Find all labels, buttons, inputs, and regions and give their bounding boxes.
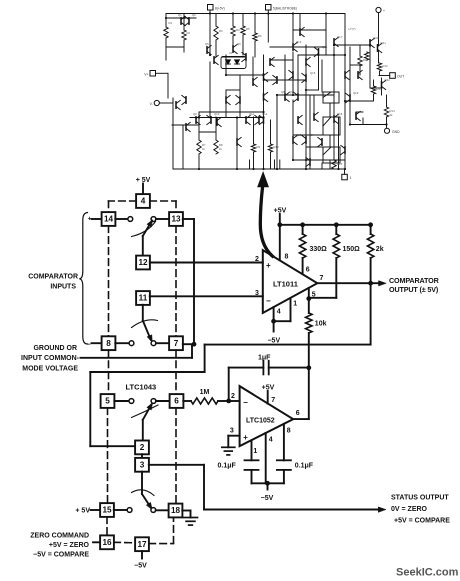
svg-text:3: 3	[255, 290, 259, 297]
svg-text:C1: C1	[229, 51, 233, 55]
wire feedback node to LTC1052 output	[308, 368, 310, 419]
resistor 2k	[370, 225, 372, 234]
svg-text:Q9: Q9	[193, 112, 197, 116]
svg-text:8(+5V): 8(+5V)	[215, 6, 225, 10]
wire contact to pin 18	[156, 509, 169, 511]
svg-text:7: 7	[174, 339, 179, 348]
die output stage boxed transistors	[323, 92, 339, 103]
wire pin12 to LT1011 +input	[150, 262, 263, 264]
pins 4 and 1 wires	[273, 307, 275, 321]
svg-text:INPUTS: INPUTS	[50, 284, 76, 291]
svg-text:13: 13	[171, 215, 181, 224]
dashed wire pin17 to pin18	[149, 543, 174, 545]
switch S2 arm and arc	[142, 305, 144, 321]
svg-text:Q12: Q12	[262, 112, 268, 116]
svg-text:R6: R6	[258, 34, 262, 38]
svg-text:Q19: Q19	[353, 91, 359, 95]
svg-text:Q15: Q15	[310, 71, 316, 75]
wire pin8 to switch contact	[115, 342, 129, 344]
svg-text:Q2: Q2	[192, 13, 196, 17]
switch contact circle near 8	[129, 341, 134, 346]
svg-text:−5V: −5V	[267, 338, 280, 345]
svg-text:OUTPUT (± 5V): OUTPUT (± 5V)	[389, 285, 439, 294]
svg-text:SeekIC.com: SeekIC.com	[396, 566, 459, 578]
wire contact to pin 6	[156, 400, 170, 402]
switch contact circle near 14	[128, 217, 133, 222]
wire pin13 right then down to pin7 node	[183, 218, 194, 220]
pin 7 wire	[267, 391, 269, 404]
LTC1043 pin 12 box	[136, 256, 150, 270]
die terminal V- input	[154, 100, 159, 105]
svg-text:+: +	[243, 433, 248, 442]
svg-text:15: 15	[102, 506, 112, 515]
svg-text:2: 2	[140, 443, 145, 452]
svg-text:+: +	[266, 261, 271, 270]
die terminal 1 bottom	[342, 174, 348, 180]
wire pin18 to ground	[182, 510, 190, 512]
op-amp LT1011 comparator	[263, 250, 318, 313]
svg-text:6: 6	[174, 397, 179, 406]
svg-text:−5V: −5V	[261, 495, 274, 502]
dashed column 7 to 6	[175, 350, 177, 394]
capacitor 1uF feedback	[228, 368, 230, 401]
svg-text:2: 2	[255, 256, 259, 263]
svg-text:COMPARATOR: COMPARATOR	[28, 274, 78, 281]
die terminal OUTPUT	[390, 73, 396, 79]
svg-text:+5V = COMPARE: +5V = COMPARE	[394, 517, 450, 524]
svg-text:−5V: −5V	[134, 563, 147, 570]
pin 4 wire	[265, 433, 267, 483]
LTC1043 pin 4 box	[136, 194, 150, 208]
svg-text:1: 1	[350, 176, 352, 180]
svg-text:R13: R13	[377, 87, 383, 91]
svg-text:INPUT COMMON-: INPUT COMMON-	[21, 355, 80, 362]
die top supply rail	[166, 13, 345, 15]
svg-text:4: 4	[269, 437, 273, 444]
wire contact to pin 7	[156, 342, 169, 344]
junction dot at pin7 node	[192, 342, 197, 347]
svg-text:2k: 2k	[390, 113, 394, 117]
svg-text:3: 3	[230, 428, 234, 435]
svg-text:18: 18	[171, 506, 181, 515]
die terminal 8 +5V	[208, 5, 214, 11]
die wiring verticals	[165, 14, 167, 28]
svg-text:0.1μF: 0.1μF	[218, 463, 237, 470]
die junction dots	[209, 12, 211, 14]
dashed column 6 to 18	[175, 408, 177, 504]
wire pin7 to junction	[183, 343, 194, 345]
svg-text:LTC1052: LTC1052	[246, 417, 275, 424]
-5V label LT1011	[273, 321, 275, 331]
svg-text:STATUS OUTPUT: STATUS OUTPUT	[391, 495, 449, 502]
svg-text:LT(?): LT(?)	[349, 27, 356, 31]
wire brace to pin 14	[92, 218, 102, 220]
resistor 330ohm	[302, 225, 304, 234]
LTC1043 pin 3 box	[135, 458, 149, 472]
pin 8 wire	[283, 424, 285, 460]
svg-text:150Ω: 150Ω	[343, 246, 361, 253]
svg-text:5: 5	[105, 397, 110, 406]
svg-text:1: 1	[293, 301, 297, 308]
wire brace to pin 8	[92, 342, 102, 344]
wire contact to pin 13	[156, 218, 169, 220]
dashed column 13 to 7	[175, 226, 177, 337]
svg-text:V-: V-	[150, 102, 153, 106]
svg-text:LT1011: LT1011	[273, 279, 298, 288]
svg-text:6: 6	[306, 267, 310, 274]
svg-text:Q10: Q10	[214, 112, 220, 116]
wire +5V to pin 4	[142, 184, 144, 195]
die wiring horizontals	[166, 17, 196, 19]
comparator output wire	[317, 282, 382, 284]
svg-text:0V = ZERO: 0V = ZERO	[391, 506, 428, 513]
svg-text:1M: 1M	[200, 389, 210, 396]
resistor 10k	[308, 299, 310, 313]
die resistors	[164, 27, 168, 38]
svg-text:Q16: Q16	[322, 45, 328, 49]
svg-text:7: 7	[320, 275, 324, 282]
svg-text:Q20: Q20	[373, 36, 379, 40]
switch S3 arm and arc	[143, 405, 152, 420]
svg-text:Q13: Q13	[296, 40, 302, 44]
svg-text:−: −	[86, 342, 90, 349]
switch contact circle near 7	[151, 341, 156, 346]
LTC1043 pin 16 box	[100, 535, 114, 549]
wire +5V to rail	[279, 214, 281, 225]
svg-text:Q5: Q5	[205, 42, 209, 46]
resistor 150ohm	[335, 225, 337, 234]
LTC1043 pin 18 box	[169, 504, 183, 518]
wire pin11 to LT1011 -input	[150, 295, 263, 297]
svg-text:10k: 10k	[315, 321, 327, 328]
svg-text:Q14: Q14	[289, 90, 295, 94]
svg-text:4: 4	[141, 197, 146, 206]
svg-text:GND: GND	[392, 130, 400, 134]
die bottom rail	[173, 168, 345, 170]
svg-text:GROUND OR: GROUND OR	[33, 345, 77, 352]
wire pin17 to -5V	[141, 551, 143, 558]
svg-text:330Ω: 330Ω	[310, 246, 328, 253]
svg-text:R11: R11	[363, 58, 368, 62]
svg-text:COMPARATOR: COMPARATOR	[389, 276, 440, 285]
junction dot feedback node	[306, 365, 311, 370]
-5V rail LTC1052	[252, 482, 284, 484]
svg-text:R3: R3	[219, 29, 223, 33]
switch contact circle near 18	[151, 508, 156, 513]
LTC1043 pin 7 box	[169, 336, 183, 350]
dashed wire pin16 to pin17	[114, 541, 135, 544]
svg-text:6: 6	[296, 410, 300, 417]
LTC1043 pin 2 box	[135, 441, 149, 455]
svg-text:3: 3	[140, 461, 145, 470]
switch contact circle near 5	[129, 399, 134, 404]
svg-text:+5V = ZERO: +5V = ZERO	[49, 542, 90, 549]
svg-text:Q24: Q24	[309, 133, 315, 137]
wire pin3 bottom to switch S4	[141, 472, 143, 494]
op-amp LTC1052	[240, 386, 294, 446]
wire +5V to pin 15	[91, 509, 101, 511]
LTC1043 pin 15 box	[100, 503, 114, 517]
link pin2-pin3 boxes	[141, 454, 143, 458]
ground/common-mode wire	[81, 357, 193, 359]
switch contact circle near 13	[151, 217, 156, 222]
svg-text:R4: R4	[236, 28, 240, 32]
feedback wire comparator output to flying cap	[205, 344, 371, 346]
svg-text:R2: R2	[187, 31, 191, 35]
comparator inputs brace	[79, 213, 87, 345]
svg-text:5(BAL/STROBE): 5(BAL/STROBE)	[273, 6, 297, 10]
svg-text:−5V = COMPARE: −5V = COMPARE	[33, 551, 89, 558]
svg-text:R15: R15	[337, 162, 343, 166]
svg-text:12: 12	[138, 258, 148, 267]
svg-text:Q17: Q17	[337, 35, 343, 39]
svg-text:1μF: 1μF	[258, 355, 271, 362]
wire pin5 to switch contact	[114, 400, 129, 402]
wire pin14 to switch contact	[115, 218, 128, 220]
svg-text:Q21: Q21	[381, 41, 387, 45]
svg-text:Q22: Q22	[385, 78, 391, 82]
svg-text:−: −	[266, 297, 271, 306]
svg-text:ZERO COMMAND: ZERO COMMAND	[30, 532, 89, 539]
svg-text:−: −	[243, 398, 248, 407]
switch contact circle near 6	[151, 399, 156, 404]
svg-text:Q18: Q18	[337, 112, 343, 116]
LTC1043 pin 6 box	[170, 394, 184, 408]
svg-text:Q11: Q11	[249, 112, 255, 116]
svg-text:R10: R10	[274, 145, 280, 149]
dashed column 8 to 5	[108, 350, 110, 394]
dashed column 15 to 16	[106, 517, 108, 536]
pin 3 wire and ground	[228, 435, 239, 437]
svg-text:OUT: OUT	[397, 75, 404, 79]
die terminal GND	[384, 128, 389, 133]
capacitor 0.1uF right	[277, 459, 291, 461]
LTC1043 pin 8 box	[102, 336, 116, 350]
capacitor 0.1uF left	[245, 459, 259, 461]
svg-text:8: 8	[106, 339, 111, 348]
resistor 1M	[183, 400, 191, 402]
svg-text:Q8: Q8	[281, 90, 285, 94]
dashed column 5 to 15	[107, 408, 109, 503]
status output wire and arrow	[204, 509, 382, 511]
svg-text:2: 2	[231, 393, 235, 400]
svg-text:1k: 1k	[219, 147, 223, 151]
svg-text:5: 5	[312, 291, 316, 298]
svg-text:1: 1	[253, 448, 257, 455]
svg-text:R1: R1	[169, 21, 173, 25]
svg-text:17: 17	[137, 540, 147, 549]
LT1011 internal die schematic (top, approximate)	[144, 5, 404, 181]
svg-text:+ 5V: + 5V	[75, 508, 90, 515]
LTC1043 pin 14 box	[102, 212, 116, 226]
svg-text:R12: R12	[383, 64, 389, 68]
svg-text:LTC1043: LTC1043	[126, 383, 157, 392]
thick arrow from LT1011 up to die schematic	[260, 187, 272, 257]
LTC1043 pin 17 box	[135, 537, 149, 551]
wire pin15 to switch contact	[114, 509, 127, 511]
die extra wiring	[297, 55, 299, 95]
svg-text:8: 8	[287, 427, 291, 434]
svg-text:Q6: Q6	[237, 42, 241, 46]
svg-text:7: 7	[271, 397, 275, 404]
die transistors	[180, 18, 182, 24]
LTC1043 pin 11 box	[136, 291, 150, 305]
dashed wires pin4 to columns	[109, 200, 137, 202]
pin 5 stub and label	[308, 288, 310, 298]
wire label to pin 16	[93, 541, 100, 543]
die diode cluster	[221, 57, 246, 69]
svg-text:Q1: Q1	[178, 13, 182, 17]
svg-text:1k: 1k	[202, 147, 206, 151]
svg-text:MODE VOLTAGE: MODE VOLTAGE	[22, 365, 78, 372]
svg-text:4: 4	[277, 309, 281, 316]
svg-text:Q23: Q23	[296, 133, 302, 137]
svg-text:V+: V+	[144, 73, 148, 77]
LTC1043 pin 5 box	[101, 394, 115, 408]
svg-text:14: 14	[104, 215, 114, 224]
pin 8 wire into triangle	[279, 225, 281, 260]
die extra transistors	[225, 97, 227, 103]
LTC1043 pin 13 box	[169, 212, 183, 226]
svg-text:11: 11	[139, 294, 148, 303]
svg-text:16: 16	[102, 538, 112, 547]
dashed column 14 to 8	[108, 226, 110, 337]
svg-text:+: +	[383, 9, 385, 13]
wire into LTC1052 pin 2	[229, 400, 240, 402]
supply rail to resistors	[280, 224, 371, 226]
svg-text:0.1μF: 0.1μF	[295, 463, 314, 470]
pin 6 output wire	[293, 418, 309, 420]
pin 1 wire	[251, 440, 253, 460]
junction dot LTC1052 inverting node	[226, 399, 231, 404]
die terminal 6	[266, 5, 272, 11]
svg-text:2k: 2k	[376, 246, 384, 253]
switch contact circle near 15	[127, 508, 132, 513]
die terminal V+ input	[150, 71, 156, 77]
svg-text:8: 8	[285, 254, 289, 261]
die terminal +Vs top right	[376, 7, 381, 12]
switch S1 arm and arc	[142, 236, 144, 256]
wire pin3 to status output line	[149, 464, 204, 466]
svg-text:R9: R9	[257, 145, 261, 149]
ground symbol at pin 18	[184, 517, 198, 519]
svg-text:R5: R5	[246, 27, 250, 31]
